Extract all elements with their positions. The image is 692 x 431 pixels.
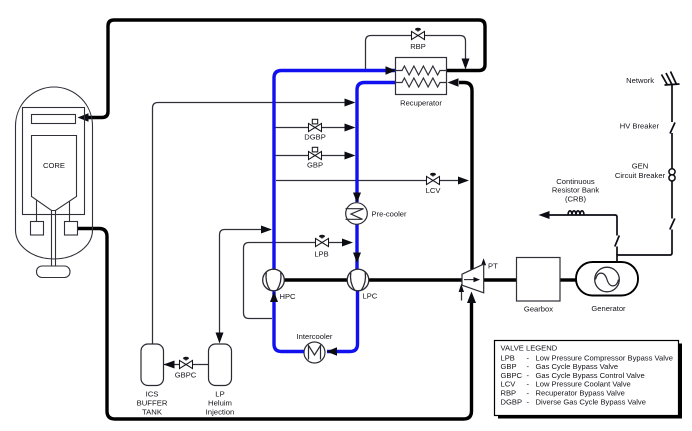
- svg-text:Gas Cycle Bypass Control Valve: Gas Cycle Bypass Control Valve: [536, 371, 645, 380]
- svg-text:LCV: LCV: [501, 380, 517, 389]
- svg-text:LPC: LPC: [363, 292, 378, 301]
- svg-text:ICS: ICS: [146, 390, 159, 399]
- svg-text:VALVE LEGEND: VALVE LEGEND: [501, 344, 558, 353]
- svg-text:GBPC: GBPC: [501, 371, 523, 380]
- svg-text:GBP: GBP: [307, 161, 323, 170]
- svg-text:Recuperator Bypass Valve: Recuperator Bypass Valve: [536, 389, 625, 398]
- svg-text:RBP: RBP: [410, 42, 426, 51]
- svg-text:GEN: GEN: [632, 161, 648, 170]
- svg-text:TANK: TANK: [142, 408, 163, 417]
- svg-text:DGBP: DGBP: [304, 133, 326, 142]
- svg-text:Recuperator: Recuperator: [400, 99, 442, 108]
- svg-text:PT: PT: [488, 262, 498, 271]
- svg-text:Gas Cycle Bypass Valve: Gas Cycle Bypass Valve: [536, 362, 619, 371]
- svg-text:Continuous: Continuous: [556, 177, 595, 186]
- svg-text:Intercooler: Intercooler: [297, 332, 333, 341]
- svg-text:Generator: Generator: [591, 304, 626, 313]
- svg-text:Circuit Breaker: Circuit Breaker: [615, 171, 666, 180]
- svg-text:Network: Network: [626, 76, 654, 85]
- svg-text:LP: LP: [215, 390, 224, 399]
- svg-text:Injection: Injection: [206, 408, 235, 417]
- svg-text:HV Breaker: HV Breaker: [620, 122, 660, 131]
- svg-text:GBPC: GBPC: [175, 371, 197, 380]
- svg-text:BUFFER: BUFFER: [137, 399, 168, 408]
- svg-text:CORE: CORE: [43, 161, 65, 170]
- svg-text:Heluim: Heluim: [208, 399, 232, 408]
- svg-text:GBP: GBP: [501, 362, 517, 371]
- svg-text:LPB: LPB: [314, 250, 328, 259]
- svg-text:Gearbox: Gearbox: [524, 305, 553, 314]
- svg-text:LCV: LCV: [426, 186, 442, 195]
- svg-text:LPB: LPB: [501, 353, 515, 362]
- svg-text:Low Pressure Coolant Valve: Low Pressure Coolant Valve: [536, 380, 631, 389]
- svg-text:Diverse Gas Cycle Bypass Valve: Diverse Gas Cycle Bypass Valve: [536, 397, 646, 406]
- svg-text:Pre-cooler: Pre-cooler: [372, 209, 407, 218]
- svg-text:HPC: HPC: [280, 292, 297, 301]
- svg-text:Low Pressure Compressor Bypass: Low Pressure Compressor Bypass Valve: [536, 353, 673, 362]
- svg-text:DGBP: DGBP: [501, 397, 523, 406]
- svg-text:(CRB): (CRB): [565, 194, 587, 203]
- svg-text:RBP: RBP: [501, 389, 517, 398]
